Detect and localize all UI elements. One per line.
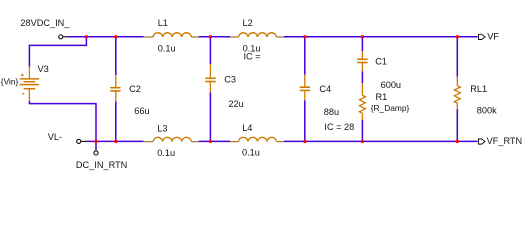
capacitor C4 bbox=[300, 75, 355, 132]
terminal DC_IN_RTN bbox=[94, 151, 98, 155]
svg-text:VF_RTN: VF_RTN bbox=[487, 136, 523, 146]
terminal 28VDC_IN_ bbox=[59, 35, 63, 39]
voltage source V3 (battery) bbox=[1, 64, 49, 101]
svg-text:R1: R1 bbox=[376, 92, 388, 102]
svg-text:{R_Damp}: {R_Damp} bbox=[371, 103, 410, 113]
wire: top rail purple left segment bbox=[68, 36, 144, 38]
svg-text:V3: V3 bbox=[38, 64, 49, 74]
wire: DC_IN_RTN stub below rail bbox=[95, 141, 97, 149]
junction dot top rail RL1 bbox=[456, 35, 459, 38]
junction dot top rail C1 bbox=[361, 35, 364, 38]
svg-text:L4: L4 bbox=[242, 123, 252, 133]
svg-text:L2: L2 bbox=[243, 18, 253, 28]
svg-text:IC = 28: IC = 28 bbox=[324, 122, 354, 132]
svg-text:88u: 88u bbox=[324, 107, 339, 117]
junction dot bottom rail R1 bbox=[361, 140, 364, 143]
svg-text:C4: C4 bbox=[319, 84, 331, 94]
junction dot bottom rail C4 bbox=[303, 140, 306, 143]
wire: black stub from VL- terminal bbox=[81, 140, 86, 142]
svg-text:RL1: RL1 bbox=[470, 84, 487, 94]
wire: black stub from input terminal bbox=[63, 36, 68, 38]
svg-text:C1: C1 bbox=[375, 56, 387, 66]
svg-text:800k: 800k bbox=[477, 106, 497, 116]
svg-text:{Vin}: {Vin} bbox=[1, 76, 19, 86]
svg-text:66u: 66u bbox=[134, 106, 149, 116]
wire: black stub above DC_IN_RTN terminal bbox=[95, 149, 97, 150]
junction dot top rail C4 bbox=[303, 35, 306, 38]
svg-text:L3: L3 bbox=[157, 123, 167, 133]
wire: top rail purple right of L2 to VF port bbox=[284, 36, 478, 38]
svg-text:28VDC_IN_: 28VDC_IN_ bbox=[20, 18, 70, 28]
svg-text:VF: VF bbox=[487, 32, 499, 42]
svg-text:0.1u: 0.1u bbox=[242, 148, 260, 158]
capacitor C3 bbox=[205, 64, 243, 109]
svg-text:DC_IN_RTN: DC_IN_RTN bbox=[76, 160, 127, 170]
wire: RL1 branch bbox=[456, 37, 458, 142]
svg-text:L1: L1 bbox=[158, 18, 168, 28]
capacitor C2 bbox=[110, 75, 149, 116]
svg-text:C2: C2 bbox=[129, 84, 141, 94]
junction dot top rail C2 bbox=[114, 35, 117, 38]
wire: bottom rail purple between L3 and L4 bbox=[199, 140, 230, 142]
junction dot bottom rail RL1 bbox=[456, 140, 459, 143]
wire: C1/R1 branch bbox=[361, 37, 363, 142]
svg-text:22u: 22u bbox=[228, 99, 243, 109]
junction dot top rail C3 bbox=[209, 35, 212, 38]
inductor L1 bbox=[144, 18, 199, 53]
port VF bbox=[479, 32, 500, 42]
svg-text:0.1u: 0.1u bbox=[158, 43, 176, 53]
resistor R1 bbox=[359, 83, 409, 120]
svg-text:VL-: VL- bbox=[48, 132, 62, 142]
resistor RL1 bbox=[454, 77, 497, 116]
wire: C2 branch bbox=[115, 37, 117, 142]
wire: C4 branch bbox=[304, 37, 306, 142]
junction dot bottom rail C2 bbox=[114, 140, 117, 143]
junction dot bottom rail C3 bbox=[209, 140, 212, 143]
wire: bottom rail purple right of L4 to VF_RTN port bbox=[284, 140, 478, 142]
wire: input drop from junction down-left to battery top bbox=[29, 37, 86, 67]
inductor L4 bbox=[230, 123, 284, 158]
junction dot bottom rail return bbox=[94, 140, 97, 143]
capacitor C1 bbox=[357, 51, 401, 90]
junction dot top rail at input bbox=[85, 35, 88, 38]
wire: battery bottom to bottom rail junction bbox=[29, 101, 96, 141]
svg-text:C3: C3 bbox=[224, 75, 236, 85]
wire: C3 branch bbox=[209, 37, 211, 142]
wire: bottom rail purple left segment bbox=[86, 140, 143, 142]
port VF_RTN bbox=[479, 136, 523, 146]
svg-text:IC =: IC = bbox=[244, 52, 261, 62]
svg-text:600u: 600u bbox=[381, 80, 401, 90]
inductor L3 bbox=[144, 123, 199, 158]
terminal VL- bbox=[77, 139, 81, 143]
inductor L2 bbox=[230, 18, 284, 62]
svg-text:0.1u: 0.1u bbox=[157, 148, 175, 158]
wire: top rail purple between L1 and L2 bbox=[199, 36, 230, 38]
